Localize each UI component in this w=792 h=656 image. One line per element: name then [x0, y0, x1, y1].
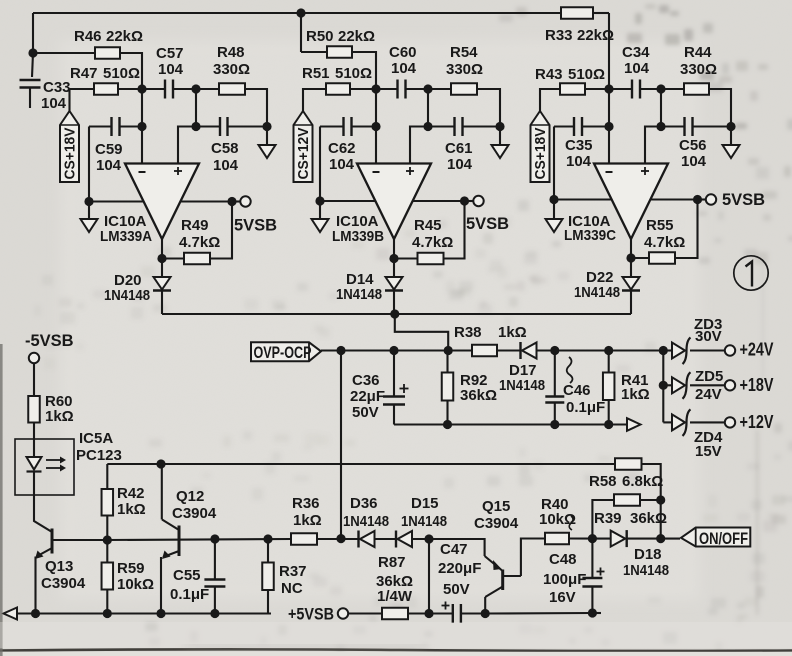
label D18 value [623, 562, 669, 579]
wire C47 to Q15 node [461, 612, 485, 614]
wire Q13 emitter down [34, 557, 36, 614]
svg-text:R51: R51 [302, 65, 330, 82]
label D20 [114, 272, 142, 289]
wire 330 right down [709, 89, 731, 127]
svg-text:0.1μF: 0.1μF [566, 399, 605, 416]
arrow rail left [4, 608, 18, 620]
junction rail Q13 [31, 609, 40, 618]
wire left cap to minus rail [352, 125, 377, 127]
resistor R92 36k [442, 373, 454, 401]
svg-text:D36: D36 [350, 495, 378, 512]
wire bus down to stage B [300, 13, 302, 52]
junction top bus to stage B [296, 8, 305, 17]
junction left rail output row stage A [84, 197, 93, 206]
capacitor C56 feedback [685, 117, 693, 136]
junction output node stage B [460, 196, 469, 205]
wire node down to C47 line [428, 539, 430, 614]
label 330Ω [213, 61, 250, 78]
svg-text:C55: C55 [173, 567, 201, 584]
label 104 [447, 156, 473, 173]
label C55 value [170, 586, 209, 603]
label D15 [411, 495, 439, 512]
wire plus node to mid cap [428, 125, 455, 127]
label C47 value [438, 560, 481, 577]
capacitor C55 0.1uF [204, 580, 225, 587]
svg-text:1/4W: 1/4W [377, 588, 413, 605]
svg-text:C59: C59 [95, 141, 123, 158]
terminal +12V [725, 417, 735, 427]
svg-text:R44: R44 [684, 44, 712, 61]
junction rail R59 [103, 609, 112, 618]
junction minus node stage C [604, 84, 613, 93]
diode D36 1N4148 [359, 531, 375, 548]
terminal +18V [725, 380, 735, 390]
label Q12 [176, 488, 204, 505]
label 330Ω [446, 61, 483, 78]
junction zener ZD5 [659, 381, 668, 390]
resistor R55 4.7k [649, 252, 675, 264]
svg-text:1kΩ: 1kΩ [45, 408, 74, 425]
label ZD4 [694, 429, 723, 446]
wire left rail to ground [88, 202, 90, 220]
junction opamp output stage A [157, 254, 166, 263]
label R60 [45, 393, 73, 410]
junction rail R92 [443, 420, 452, 429]
resistor R45 4.7k [418, 253, 444, 265]
wire minus rail [375, 89, 377, 164]
wire pullup up [675, 200, 698, 259]
label D18 [634, 546, 662, 563]
svg-text:6.8kΩ: 6.8kΩ [622, 473, 663, 490]
diode D20 1N4148 [153, 277, 171, 291]
wire Q12 emitter down [160, 557, 162, 614]
svg-text:R46: R46 [74, 28, 102, 45]
polarity mark C47 [442, 602, 450, 610]
label R46 [74, 28, 102, 45]
svg-text:510Ω: 510Ω [568, 66, 605, 83]
junction rail R41 [604, 420, 613, 429]
wire to output resistor [196, 88, 219, 90]
diode D17 1N4148 [521, 342, 537, 359]
label +5VSB [288, 606, 334, 624]
svg-text:R54: R54 [450, 44, 478, 61]
svg-text:R43: R43 [535, 66, 563, 83]
label LM339A [100, 228, 152, 245]
label R42 value [117, 501, 146, 518]
resistor R54 330 [451, 83, 477, 95]
label R48 [217, 44, 245, 61]
junction C55 tap [210, 534, 219, 543]
wire R58 node down [660, 500, 662, 539]
terminal +5VSB [338, 608, 348, 618]
wire C48 top [591, 539, 593, 578]
wire to output resistor [428, 88, 451, 90]
svg-text:R48: R48 [217, 44, 245, 61]
wire left cap lead [554, 125, 574, 127]
label R54 [450, 44, 478, 61]
junction rail Q12 [156, 609, 165, 618]
junction minus node stage A [137, 84, 146, 93]
svg-text:4.7kΩ: 4.7kΩ [644, 234, 685, 251]
label 22kΩ [106, 28, 143, 45]
svg-text:104: 104 [391, 60, 417, 77]
wire C48 bottom [591, 587, 593, 614]
wire bottom rail [17, 612, 271, 614]
junction bus at D14 [390, 309, 399, 318]
wire R87 to node [408, 612, 429, 614]
label R60 value [45, 408, 74, 425]
net flag CS+12V stage B [294, 111, 313, 182]
label 104 [566, 153, 592, 170]
wire opamp out [393, 239, 395, 259]
wire minus node to top cap [142, 88, 165, 90]
label ZD5 value [695, 386, 722, 403]
label 22kΩ [338, 28, 375, 45]
net flag CS+18V stage C [531, 111, 550, 182]
svg-text:1N4148: 1N4148 [499, 377, 545, 394]
label IC10A [104, 213, 147, 230]
label D17 value [499, 377, 545, 394]
label 104 [158, 61, 184, 78]
wire output row [554, 198, 698, 200]
wire to C47 [429, 612, 453, 614]
resistor R60 1k [28, 396, 40, 423]
op-amp IC10C comparator [594, 164, 668, 240]
wire R42 top [106, 464, 108, 489]
junction output node stage A [227, 197, 236, 206]
wire R37 top [267, 539, 269, 563]
svg-text:1kΩ: 1kΩ [117, 501, 146, 518]
svg-text:1kΩ: 1kΩ [498, 324, 527, 341]
svg-text:1N4148: 1N4148 [623, 562, 669, 579]
svg-text:Q15: Q15 [482, 498, 510, 515]
wire R60 to opto [33, 423, 35, 458]
wire 330 right down [245, 89, 267, 127]
label R58 value [622, 473, 663, 490]
svg-text:22kΩ: 22kΩ [106, 28, 143, 45]
svg-text:510Ω: 510Ω [103, 65, 140, 82]
wire left cap lead [89, 125, 112, 127]
wire minus node to top cap [376, 88, 398, 90]
label 510Ω [103, 65, 140, 82]
wire base line [107, 539, 291, 540]
label R40 value [539, 511, 576, 528]
label C36 voltage [352, 404, 379, 421]
svg-text:C56: C56 [679, 137, 707, 154]
label 22kΩ [577, 27, 614, 44]
wire C46 bottom [554, 403, 556, 425]
svg-text:R59: R59 [117, 560, 145, 577]
wire plus node to mid cap [196, 125, 220, 127]
svg-text:+5VSB: +5VSB [288, 606, 334, 624]
junction feedback node stage A [191, 84, 200, 93]
label PC123 [76, 447, 122, 464]
wire D18 to node [627, 538, 661, 540]
label C59 [95, 141, 123, 158]
svg-text:5VSB: 5VSB [722, 191, 765, 209]
label R43 [535, 66, 563, 83]
svg-text:R47: R47 [70, 65, 98, 82]
svg-text:R58: R58 [589, 473, 617, 490]
junction left rail output row stage C [549, 195, 558, 204]
label R39 [594, 510, 622, 527]
svg-text:104: 104 [213, 157, 239, 174]
wire C55 top [214, 539, 216, 580]
wire ZD3 to +24V [690, 349, 725, 351]
label 5VSB [466, 215, 509, 233]
wire left rail [319, 127, 321, 202]
wire output to terminal [232, 200, 241, 202]
wire pullup up [210, 202, 232, 259]
wire diode to bus [161, 291, 163, 315]
resistor R44 330 [684, 83, 709, 95]
wire C46 top [554, 351, 556, 397]
capacitor C61 feedback [455, 117, 463, 136]
svg-text:22kΩ: 22kΩ [338, 28, 375, 45]
wire right node to ground [730, 127, 732, 146]
wire to minus node [350, 88, 376, 90]
wire to pullup [394, 257, 418, 259]
label +12V [740, 412, 774, 432]
junction feedback node stage C [656, 84, 665, 93]
label 104 [96, 157, 122, 174]
wire R58 right down [642, 464, 661, 500]
wire R92 top [446, 351, 448, 373]
label D15 value [401, 513, 447, 530]
junction Q12 collector [156, 459, 165, 468]
resistor R47 [94, 83, 118, 95]
terminal 5VSB stage C [706, 194, 716, 204]
label C48 voltage [549, 589, 576, 606]
label R41 value [621, 386, 650, 403]
terminal 5VSB stage A [240, 196, 250, 206]
LED emission arrows [46, 457, 66, 472]
svg-text:330Ω: 330Ω [680, 61, 717, 78]
optocoupler IC5A PC123 box [15, 439, 74, 495]
label D36 [350, 495, 378, 512]
wire top bus right of R33 [593, 12, 609, 14]
wire diode bus [162, 313, 631, 315]
wire mid cap to right node [228, 125, 268, 127]
wire R43 left to flag [540, 89, 560, 111]
svg-text:10kΩ: 10kΩ [539, 511, 576, 528]
wire C36 bottom [393, 405, 395, 425]
wire D36 to D15 [375, 538, 397, 540]
wire left rail [553, 127, 555, 200]
label D17 [509, 362, 537, 379]
label R33 [545, 27, 573, 44]
wire R51 left to flag [303, 89, 326, 111]
junction base node [103, 535, 112, 544]
label D36 value [343, 513, 389, 530]
svg-text:IC5A: IC5A [79, 430, 113, 447]
svg-text:10kΩ: 10kΩ [117, 576, 154, 593]
junction Q15 collector node [481, 609, 490, 618]
resistor R43 [560, 83, 585, 95]
svg-text:R50: R50 [306, 28, 334, 45]
label C55 [173, 567, 201, 584]
resistor R40 10k [545, 533, 569, 545]
label Q15 type [474, 515, 519, 532]
capacitor C58 feedback [220, 117, 228, 136]
svg-text:104: 104 [447, 156, 473, 173]
wire opamp out [630, 239, 632, 258]
svg-text:D18: D18 [634, 546, 662, 563]
svg-text:24V: 24V [695, 386, 722, 403]
junction minus rail row3 stage C [604, 122, 613, 131]
node stage A input corner [28, 48, 37, 57]
svg-text:22kΩ: 22kΩ [577, 27, 614, 44]
wire D17 to zener node [537, 349, 664, 351]
svg-text:C57: C57 [156, 45, 184, 62]
junction feedback node stage B [423, 84, 432, 93]
wire R50 right down [352, 52, 376, 89]
wire node to Q15 emitter [429, 539, 485, 556]
wire OVP to switch line [340, 351, 342, 539]
capacitor C36 22uF [383, 397, 405, 405]
resistor R42 1k [102, 489, 114, 516]
label R87 power [377, 588, 413, 605]
label 4.7kΩ [179, 234, 220, 251]
label R47 [70, 65, 98, 82]
wire R40 right [569, 537, 592, 539]
junction C47 left node [424, 609, 433, 618]
svg-text:R39: R39 [594, 510, 622, 527]
diode D15 1N4148 [396, 531, 412, 548]
label IC10A [336, 213, 379, 230]
label C36 [352, 372, 380, 389]
label +24V [740, 340, 774, 360]
label R39 value [630, 510, 667, 527]
svg-text:+18V: +18V [740, 375, 774, 395]
svg-text:PC123: PC123 [76, 447, 122, 464]
wire plus node to mid cap [661, 125, 685, 127]
junction switch line x341 [336, 534, 345, 543]
svg-text:C46: C46 [563, 382, 591, 399]
label C33 value [41, 95, 67, 112]
resistor R38 1k [472, 345, 497, 357]
wire left cap to minus rail [120, 125, 143, 127]
svg-text:104: 104 [158, 61, 184, 78]
wire to minus node [118, 88, 142, 90]
svg-text:104: 104 [566, 153, 592, 170]
junction plus node stage B [423, 122, 432, 131]
label C48 value [543, 571, 586, 588]
label LM339B [332, 228, 384, 245]
resistor R51 [326, 83, 350, 95]
wire middle rail [394, 423, 627, 425]
capacitor C35 input [574, 117, 582, 136]
junction OVP at x341 [336, 346, 345, 355]
svg-text:5VSB: 5VSB [234, 217, 277, 235]
label C62 [328, 140, 356, 157]
diode D22 1N4148 [622, 277, 640, 291]
label R38 [454, 324, 482, 341]
wire LED to Q13 collector [34, 472, 52, 533]
wire R41 top [608, 351, 610, 373]
svg-text:4.7kΩ: 4.7kΩ [412, 234, 453, 251]
wire zener vertical [662, 351, 664, 423]
label 104 [213, 157, 239, 174]
terminal +24V [725, 345, 735, 355]
terminal -5VSB [29, 353, 39, 363]
wire left rail to ground [553, 200, 555, 220]
wire diode to bus [393, 291, 395, 315]
svg-text:CS+18V: CS+18V [63, 127, 79, 179]
label 5VSB [722, 191, 765, 209]
wire C55 bottom [214, 587, 216, 614]
op-amp IC10B comparator [357, 164, 431, 240]
wire feedback vertical [660, 89, 662, 127]
junction D18 right node [656, 534, 665, 543]
svg-text:C47: C47 [440, 541, 468, 558]
wire top cap to feedback node [173, 88, 196, 90]
label R87 [378, 554, 406, 571]
label R44 [684, 44, 712, 61]
wire minus rail [141, 89, 143, 164]
label 330Ω [680, 61, 717, 78]
label R41 [621, 372, 649, 389]
label ZD3 [694, 316, 722, 333]
svg-text:0.1μF: 0.1μF [170, 586, 209, 603]
resistor R33 22k [561, 7, 593, 19]
junction opamp output stage B [389, 254, 398, 263]
svg-text:R49: R49 [181, 217, 209, 234]
terminal 5VSB stage B [473, 196, 483, 206]
svg-text:4.7kΩ: 4.7kΩ [179, 234, 220, 251]
wire to minus node [585, 88, 609, 90]
wire R36 to D36 [317, 538, 359, 540]
wire R37 bottom [267, 590, 269, 614]
label C46 [563, 382, 591, 399]
svg-text:R45: R45 [414, 217, 442, 234]
svg-text:LM339B: LM339B [332, 228, 384, 245]
label R37 value [281, 580, 303, 597]
label C34 [622, 44, 650, 61]
label D14 [346, 271, 374, 288]
svg-text:C48: C48 [549, 551, 577, 568]
label Q13 [45, 558, 73, 575]
wire control line [107, 463, 615, 465]
svg-text:50V: 50V [443, 581, 470, 598]
junction minus rail row3 stage B [371, 122, 380, 131]
wire R59 top [106, 540, 108, 563]
svg-text:15V: 15V [695, 443, 722, 460]
wire to output resistor [661, 88, 684, 90]
capacitor C33 104 [20, 80, 41, 88]
label C35 [565, 137, 593, 154]
svg-text:104: 104 [41, 95, 67, 112]
junction R58 R39 [656, 495, 665, 504]
svg-text:1N4148: 1N4148 [401, 513, 447, 530]
label Q15 [482, 498, 510, 515]
svg-text:CS+12V: CS+12V [296, 127, 312, 179]
transistor Q15 C3904 [485, 556, 521, 597]
wire right node to ground [266, 127, 268, 146]
svg-text:R55: R55 [646, 217, 674, 234]
label C47 voltage [443, 581, 470, 598]
label C61 [445, 140, 473, 157]
wire ZD5 to +18V [690, 384, 725, 386]
svg-text:104: 104 [329, 156, 355, 173]
wire 330 right down [477, 89, 500, 127]
svg-text:CS+18V: CS+18V [533, 127, 549, 179]
label C47 [440, 541, 468, 558]
resistor R36 1k [291, 533, 317, 545]
svg-text:22μF: 22μF [350, 388, 385, 405]
wire left cap lead [320, 125, 344, 127]
wire to diode D20 [161, 259, 163, 278]
